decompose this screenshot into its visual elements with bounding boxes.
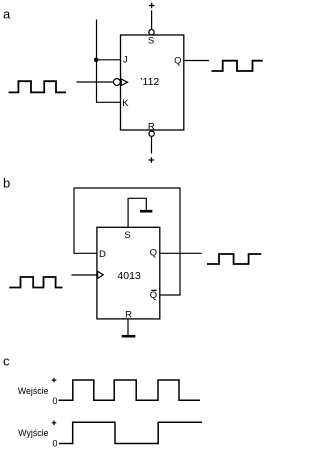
wire J-K tie vertical	[96, 20, 98, 103]
feedback wire Qbar to D	[74, 188, 180, 295]
wire J input	[97, 59, 121, 61]
output waveform (c)	[59, 422, 202, 443]
input waveform (a)	[9, 81, 67, 92]
wire K input	[96, 101, 121, 103]
wire clock input (a)	[76, 81, 113, 83]
wire R to ground (b)	[127, 319, 129, 335]
plus label output level (c)	[52, 421, 57, 426]
svg-text:R: R	[125, 310, 132, 321]
flip-flop U1 '112 box	[121, 35, 184, 130]
svg-text:Q: Q	[174, 56, 181, 67]
output waveform (b)	[207, 254, 261, 264]
svg-text:a: a	[3, 7, 11, 22]
S inversion bubble	[149, 30, 154, 35]
wire Q output (b)	[160, 252, 202, 254]
wire clock input (b)	[72, 274, 97, 276]
plus label R supply (a)	[149, 157, 155, 163]
wire S supply	[151, 10, 153, 29]
svg-text:0: 0	[52, 439, 57, 449]
ground (bottom, b)	[122, 335, 136, 338]
clock bubble (a)	[114, 79, 121, 86]
clock triangle (b)	[98, 271, 104, 278]
svg-text:Q: Q	[150, 290, 157, 301]
svg-text:0: 0	[52, 396, 57, 406]
ground (top, b)	[140, 210, 152, 213]
svg-text:J: J	[123, 55, 128, 66]
svg-text:Q: Q	[150, 248, 157, 259]
overbar of Qbar	[151, 289, 156, 291]
svg-text:K: K	[122, 98, 129, 109]
junction dot J	[94, 58, 99, 63]
svg-text:S: S	[148, 36, 154, 47]
svg-text:Wyjście: Wyjście	[18, 428, 48, 438]
plus label input level (c)	[52, 378, 57, 383]
svg-text:’112: ’112	[140, 76, 159, 88]
svg-text:Wejście: Wejście	[18, 386, 49, 396]
input waveform (b)	[9, 277, 62, 288]
wire R supply	[151, 137, 153, 154]
svg-text:S: S	[124, 230, 130, 241]
svg-text:4013: 4013	[117, 270, 141, 282]
wire Q output (a)	[184, 60, 209, 62]
clock triangle (a)	[121, 79, 127, 86]
svg-text:b: b	[3, 176, 10, 191]
plus label S supply (a)	[149, 3, 155, 9]
output waveform (a)	[212, 61, 263, 71]
svg-text:D: D	[99, 249, 106, 260]
wire S to ground (b)	[128, 198, 146, 227]
svg-text:c: c	[3, 354, 10, 369]
flip-flop U2 4013 box	[97, 227, 160, 319]
R inversion bubble	[149, 131, 154, 136]
input waveform (c)	[59, 380, 201, 400]
